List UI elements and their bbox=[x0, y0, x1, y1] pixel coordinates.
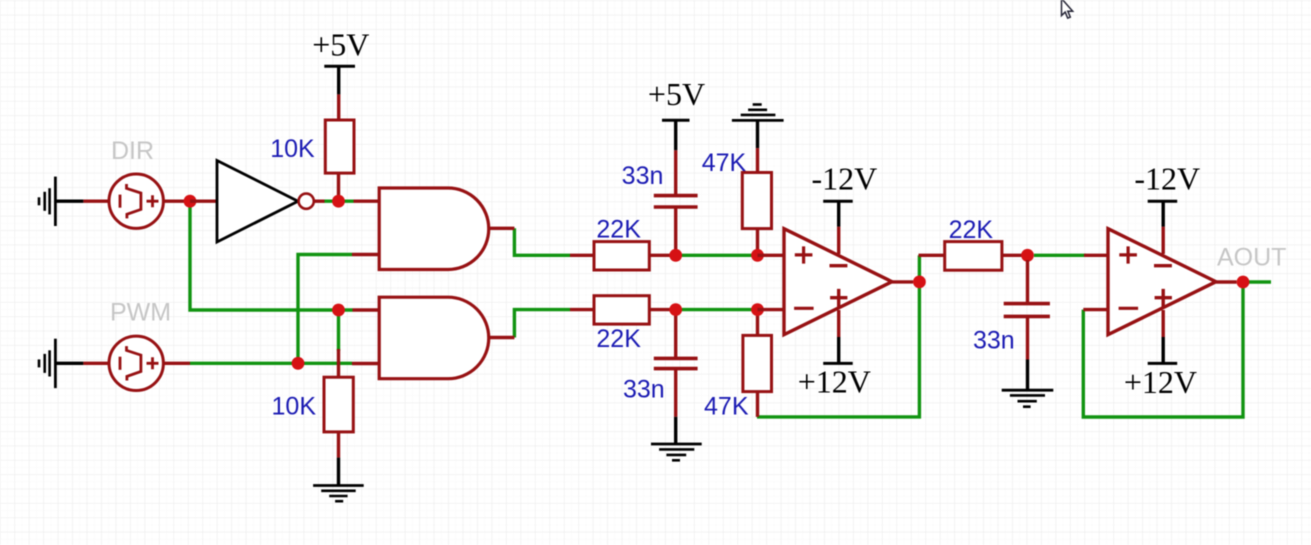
svg-text:47K: 47K bbox=[702, 149, 747, 177]
svg-text:22K: 22K bbox=[596, 325, 641, 353]
capacitor C1 33n (row1 to +5V) bbox=[654, 150, 698, 250]
wire: inverter bubble to junction to gate1 input1 bbox=[324, 199, 354, 202]
resistor R3 22K (row1) bbox=[570, 242, 672, 270]
wire: op-amp U2 feedback loop to inverting input bbox=[1083, 282, 1243, 417]
node: junction at R7 / C3 bbox=[1021, 249, 1034, 262]
wire: gate2 output to 22K R6 bbox=[514, 310, 570, 338]
wire: DIR net down to gate2 top input bbox=[190, 201, 353, 310]
svg-text:47K: 47K bbox=[704, 393, 749, 421]
resistor R1 10K (pullup) bbox=[325, 120, 354, 196]
ground (below R2) bbox=[313, 458, 364, 502]
wire: pin into U2 inverting input bbox=[1083, 308, 1108, 311]
svg-text:33n: 33n bbox=[973, 326, 1015, 354]
resistor R6 22K (row2) bbox=[570, 296, 672, 324]
resistor R2 10K (pulldown) bbox=[324, 349, 353, 458]
node: row1 junction at R4 bbox=[751, 249, 764, 262]
ground (earth, above R4) bbox=[732, 105, 784, 149]
ground (below C2) bbox=[651, 417, 702, 461]
svg-text:-12V: -12V bbox=[1134, 161, 1200, 197]
resistor R4 47K (row1 to gnd) bbox=[742, 148, 771, 250]
capacitor C2 33n (row2 to gnd) bbox=[654, 315, 698, 417]
op-amp U1 bbox=[758, 227, 914, 337]
wire: gate1 output to 22K R3 bbox=[514, 228, 570, 255]
power +5V supply (filter) bbox=[662, 120, 690, 150]
power -12V supply (U2) bbox=[1148, 201, 1178, 226]
pulse voltage source V1 (DIR) bbox=[83, 174, 190, 228]
power +12V supply (U2) bbox=[1148, 337, 1178, 363]
capacitor C3 33n (to gnd) bbox=[1004, 260, 1050, 360]
wire: op-amp U1 output up to 22K R7 bbox=[918, 255, 921, 282]
svg-text:+12V: +12V bbox=[1124, 364, 1197, 400]
wire: op-amp U1 feedback down and left to 47K R5 bbox=[757, 282, 919, 417]
node: inverter output junction bbox=[332, 195, 345, 208]
wire: junction to gate2 pin bbox=[353, 308, 380, 311]
svg-text:+12V: +12V bbox=[798, 364, 871, 400]
wire: row2 node between R6, C2, R5, op-amp bbox=[682, 308, 758, 311]
power +12V supply (U1) bbox=[823, 337, 853, 363]
wire: AOUT output stub bbox=[1249, 280, 1271, 283]
svg-text:10K: 10K bbox=[270, 135, 315, 163]
svg-text:33n: 33n bbox=[623, 375, 665, 403]
svg-text:+5V: +5V bbox=[312, 26, 369, 62]
wire: pin into U2 noninverting input bbox=[1084, 254, 1108, 257]
node: AOUT junction bbox=[1237, 276, 1250, 289]
ground (signal, PWM source) bbox=[39, 339, 83, 388]
svg-text:33n: 33n bbox=[622, 162, 664, 190]
node: row2 junction at R5 bbox=[751, 303, 764, 316]
node: PWM junction bbox=[292, 357, 305, 370]
node: gate2 input1 junction bbox=[332, 304, 345, 317]
wire: gate2 top input node to 10K R2 pulldown bbox=[337, 310, 340, 351]
svg-text:PWM: PWM bbox=[110, 299, 171, 327]
svg-text:AOUT: AOUT bbox=[1217, 244, 1286, 272]
wire: PWM branch up to gate1 input2 bbox=[298, 255, 352, 364]
svg-text:22K: 22K bbox=[596, 216, 641, 244]
mouse cursor bbox=[1062, 0, 1073, 18]
power -12V supply (U1) bbox=[823, 201, 853, 226]
inverter U3 bbox=[190, 161, 325, 243]
power +5V supply (pullup) bbox=[324, 66, 355, 120]
ground (signal, DIR source) bbox=[39, 177, 83, 226]
svg-text:10K: 10K bbox=[272, 392, 317, 420]
resistor R7 22K (to U2) bbox=[919, 242, 1025, 271]
svg-text:22K: 22K bbox=[949, 216, 994, 244]
AND gate U4A bbox=[352, 188, 514, 270]
ground (below C3) bbox=[1002, 360, 1054, 407]
wire: junction to gate1 pin bbox=[354, 199, 380, 202]
node: DIR junction bbox=[184, 195, 197, 208]
pulse voltage source V2 (PWM) bbox=[83, 336, 190, 390]
svg-text:DIR: DIR bbox=[111, 137, 154, 165]
svg-text:+5V: +5V bbox=[648, 76, 705, 112]
svg-text:-12V: -12V bbox=[812, 161, 878, 197]
wire: PWM source to gate2 input2 bbox=[190, 362, 352, 365]
AND gate U4B bbox=[352, 297, 514, 379]
resistor R5 47K (row2 feedback) bbox=[743, 315, 772, 417]
node: op-amp U1 output junction bbox=[913, 276, 926, 289]
wire: row1 node between R3, C1, R4, op-amp bbox=[682, 254, 758, 257]
node: row2 junction at C2 bbox=[669, 303, 682, 316]
wire: R7 to op-amp U2 noninverting input bbox=[1034, 254, 1086, 257]
node: row1 junction at C1 bbox=[669, 249, 682, 262]
op-amp U2 bbox=[1108, 227, 1237, 337]
